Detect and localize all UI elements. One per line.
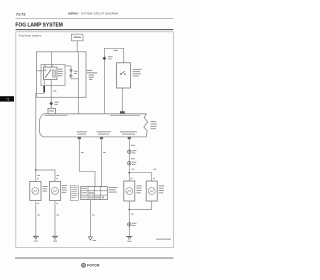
label engine compartment relay box — [87, 70, 98, 80]
blob right side labels — [151, 121, 158, 129]
rear fog lamp boxes — [124, 181, 135, 201]
front fog lamp RH — [30, 181, 41, 200]
table contacts row3 — [89, 197, 91, 199]
wire relay pin4 to lamps — [36, 80, 44, 171]
footer rule — [15, 257, 173, 259]
lamp pin marks — [37, 178, 155, 204]
wire label — [114, 50, 119, 51]
wire labels — [81, 152, 84, 153]
svg-text:Fog lamp system: Fog lamp system — [19, 34, 42, 38]
relay coil — [53, 70, 56, 77]
battery B1 — [71, 34, 83, 41]
relay K1 — [43, 67, 57, 79]
blob text top right — [110, 115, 140, 116]
front lamp ground wires — [35, 201, 37, 236]
ground GD front RH — [33, 235, 39, 237]
enclosure engine room relay box A — [37, 52, 87, 98]
connector C-102 diamond — [103, 56, 107, 60]
connector C-30 diamond — [49, 101, 53, 105]
wire label 2-1 — [53, 91, 56, 92]
fog lamp switch S1 — [117, 63, 131, 88]
combination switch blob outline — [39, 114, 147, 137]
connector sleeve on pin4 wire — [43, 86, 45, 92]
tab and wire w3 rear lamps — [128, 137, 131, 139]
side tab 71 — [0, 96, 14, 101]
connector box on blob top — [48, 108, 55, 114]
svg-text:71-72: 71-72 — [16, 12, 26, 16]
tab and wire w1 to table — [78, 137, 81, 139]
svg-text:FOG LAMP SYSTEM: FOG LAMP SYSTEM — [15, 23, 63, 29]
title rule — [16, 29, 174, 31]
wire pin5 tick — [44, 65, 46, 68]
blob bottom text col3 — [120, 131, 137, 132]
terminal tab — [120, 111, 125, 114]
header rule — [16, 18, 174, 20]
joint connector ring 2 — [128, 162, 131, 165]
FOTON logo — [82, 263, 86, 267]
inner relay enclosure B — [41, 65, 65, 86]
feed wire bus down to switch blob — [77, 52, 79, 114]
blob bottom text col1 — [77, 131, 88, 132]
wire switch to blob — [121, 88, 123, 111]
relay pin numbers — [44, 65, 45, 66]
long wire from relay to front lamps junction — [35, 169, 37, 171]
joint connector ring 1 — [128, 150, 131, 153]
svg-text:FOTON: FOTON — [87, 264, 100, 268]
wire relay pin2 down — [50, 80, 52, 109]
wire battery to bus — [76, 41, 78, 52]
ground rear — [126, 236, 132, 238]
switch contact table — [81, 187, 108, 200]
table contacts row2 — [89, 192, 91, 194]
blob bottom text col2 — [97, 131, 112, 132]
relay label lines — [58, 69, 63, 77]
blob text top left — [45, 115, 68, 116]
fog lamp switch feed wire (up and over) — [104, 48, 123, 114]
outer diagram box — [16, 32, 174, 248]
table ground wire — [89, 200, 91, 237]
svg-text:71: 71 — [6, 97, 10, 101]
joint connector ring 3 — [128, 223, 131, 226]
ground arrow — [88, 237, 92, 240]
fuse F1 — [65, 65, 71, 67]
wire label — [131, 145, 135, 146]
drawing code — [156, 239, 171, 240]
wire fuse to feed — [71, 78, 78, 80]
stub wire relay pin1 to box edge — [37, 70, 44, 72]
junction split to right lamp — [128, 172, 130, 174]
fuse label — [74, 71, 78, 72]
rear lamp ground wires join — [128, 201, 130, 210]
front fog lamp LH — [50, 181, 61, 200]
switch label lines — [133, 69, 142, 77]
ground GD front LH — [52, 235, 58, 237]
svg-text:WIRING - SYSTEM CIRCUIT DIAGRA: WIRING - SYSTEM CIRCUIT DIAGRAM — [68, 11, 119, 15]
note box — [70, 186, 78, 201]
tab and wire w2 to table — [100, 137, 103, 139]
table label right — [109, 187, 118, 193]
wire bus to relay pin 3 — [51, 52, 53, 67]
relay switch contact — [45, 70, 46, 71]
